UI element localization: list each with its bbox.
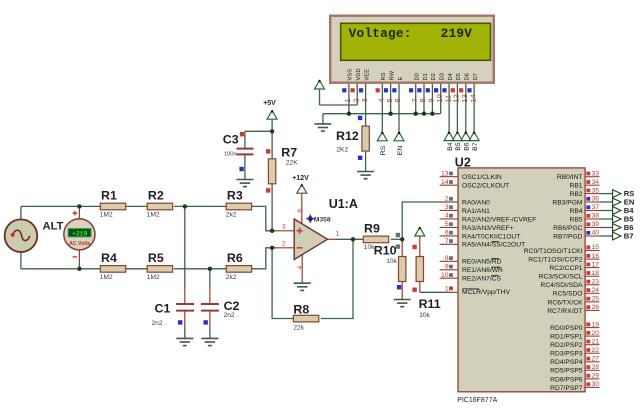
svg-text:D4: D4	[448, 72, 454, 80]
U2 pin 40 RB7/PGD	[553, 230, 599, 241]
U2 pin 17 RC2/CCP1	[549, 261, 599, 272]
resistor R7	[268, 146, 298, 184]
wire +5V to C3 and R7	[245, 119, 272, 158]
wire R3 to op-amp pin 3	[252, 206, 295, 230]
svg-text:RB5: RB5	[569, 216, 582, 223]
svg-text:RC0/T1OSO/T1CKI: RC0/T1OSO/T1CKI	[524, 248, 583, 255]
wire R2-R3 with node	[174, 205, 226, 207]
svg-text:RA3/AN3/VREF+: RA3/AN3/VREF+	[462, 225, 514, 232]
svg-text:RE2/AN7/CS: RE2/AN7/CS	[462, 276, 502, 283]
svg-text:C3: C3	[223, 133, 239, 147]
terminal RS below LCD	[377, 132, 387, 155]
svg-text:B6: B6	[464, 142, 471, 151]
input terminal at R11	[415, 227, 425, 236]
wire C2 branch from R5-R6 node	[209, 269, 211, 339]
svg-text:3: 3	[360, 98, 369, 102]
resistor R9	[363, 222, 388, 251]
svg-text:R3: R3	[227, 189, 243, 203]
svg-text:RB6/PGC: RB6/PGC	[553, 225, 583, 232]
svg-text:D0: D0	[415, 73, 421, 80]
svg-text:RE1/AN6/WR: RE1/AN6/WR	[462, 267, 503, 274]
ground at C1	[176, 338, 193, 345]
terminal B6 at U2 pin 39	[600, 223, 634, 232]
node op-amp output / feedback	[351, 237, 355, 241]
U2 pin 33 RB0/INT	[557, 170, 600, 181]
node top rail / voltmeter	[77, 204, 81, 208]
svg-text:OSC2/CLKOUT: OSC2/CLKOUT	[462, 183, 509, 190]
svg-text:R7: R7	[281, 146, 297, 160]
svg-text:RB1: RB1	[569, 183, 582, 190]
svg-text:28: 28	[592, 364, 600, 371]
U2 pin 35 RB2	[569, 187, 599, 198]
svg-text:RD3/PSP3: RD3/PSP3	[550, 351, 583, 358]
node op-amp pin 2 / R8	[270, 246, 274, 250]
node ground bus / LCD pin 5	[388, 112, 392, 116]
wire bottom rail from source to R4	[21, 251, 100, 269]
resistor R1	[100, 189, 126, 219]
wire LCD pin 7 D0	[415, 83, 417, 114]
svg-text:D2: D2	[431, 73, 437, 80]
U2 pin 30 RD7/PSP7	[550, 381, 599, 392]
svg-text:RC7/RX/DT: RC7/RX/DT	[547, 308, 582, 315]
wire LCD pin 11 D4 to terminal	[448, 83, 450, 132]
U2 pin 18 RC3/SCK/SCL	[539, 270, 600, 281]
microcontroller U2 PIC16F877A body	[455, 155, 585, 403]
svg-text:2k2: 2k2	[226, 274, 237, 281]
resistor R2	[147, 189, 173, 219]
wire LCD pin 13 D6 to terminal	[465, 83, 467, 132]
op-amp U1:A part number LM358	[306, 215, 331, 224]
U2 pin 6 RA4/T0CKI/C1OUT	[440, 230, 521, 241]
svg-text:10: 10	[441, 272, 449, 279]
svg-text:36: 36	[592, 196, 600, 203]
resistor R5	[147, 251, 173, 281]
wire R9 to R10 node and PIC RA0	[391, 202, 458, 239]
svg-text:ALT: ALT	[43, 221, 64, 233]
svg-text:Voltage:: Voltage:	[349, 26, 412, 41]
node +5V / C3 / R7	[270, 129, 274, 133]
wire R4-R5	[126, 268, 148, 270]
wire LCD pin 8 D1	[423, 83, 425, 114]
svg-text:RD7/PSP7: RD7/PSP7	[550, 385, 583, 392]
terminal RS at U2 pin 35	[600, 189, 635, 198]
U2 pin 8 RE0/AN5/RD	[440, 255, 502, 266]
U2 pin 3 RA1/AN1	[440, 204, 491, 215]
resistor R3	[226, 189, 252, 219]
svg-text:2n2: 2n2	[152, 320, 163, 327]
svg-text:8: 8	[445, 255, 449, 262]
svg-text:RA5/AN4/SS/C2OUT: RA5/AN4/SS/C2OUT	[462, 242, 525, 249]
U2 pin 34 RB1	[569, 179, 599, 190]
LCD module LM016L body	[330, 16, 494, 83]
svg-text:24: 24	[592, 287, 600, 294]
svg-text:RC3/SCK/SCL: RC3/SCK/SCL	[539, 274, 583, 281]
svg-text:M358: M358	[314, 217, 331, 224]
capacitor C2	[201, 299, 240, 319]
svg-text:14: 14	[468, 94, 477, 102]
svg-text:EN: EN	[397, 146, 404, 156]
capacitor C1	[152, 302, 195, 327]
svg-text:1M2: 1M2	[100, 212, 113, 219]
U2 pin 16 RC1/T1OSI/CCP2	[528, 253, 599, 264]
svg-text:14: 14	[441, 179, 449, 186]
svg-text:26: 26	[592, 304, 600, 311]
wire R1-R2	[126, 205, 148, 207]
wire terminal to R11	[419, 236, 421, 257]
svg-text:RA2/AN2/VREF-/CVREF: RA2/AN2/VREF-/CVREF	[462, 216, 536, 223]
svg-text:B5: B5	[455, 142, 462, 151]
op-amp pin numbers	[282, 209, 340, 270]
svg-text:4: 4	[445, 213, 449, 220]
node ground bus / LCD pin 8	[422, 112, 426, 116]
svg-text:R10: R10	[374, 243, 397, 257]
svg-text:R8: R8	[293, 303, 309, 317]
U2 pin 21 RD2/PSP2	[550, 338, 599, 349]
power +12V terminal at op-amp	[292, 175, 309, 193]
U2 pin 20 RD1/PSP1	[550, 330, 599, 341]
svg-text:17: 17	[592, 261, 600, 268]
U2 pin 7 RA5/AN4/SS/C2OUT	[440, 238, 526, 249]
ground at C2	[201, 338, 218, 345]
U2 pin 25 RC6/TX/CK	[548, 296, 600, 307]
svg-text:RS: RS	[381, 72, 387, 80]
svg-text:RA4/T0CKI/C1OUT: RA4/T0CKI/C1OUT	[462, 233, 520, 240]
wire node to R10	[401, 239, 403, 256]
svg-text:33: 33	[592, 170, 600, 177]
wire LCD +5V feed to VDD	[320, 89, 358, 105]
state squares at C1 C2 C3 R7 R12	[178, 116, 362, 325]
svg-text:15: 15	[592, 244, 600, 251]
wire LCD pin 14 D7 to terminal	[473, 83, 475, 132]
ground at R12	[357, 172, 374, 179]
label ALT	[43, 221, 64, 233]
svg-text:D5: D5	[456, 73, 462, 80]
svg-text:RD5/PSP5: RD5/PSP5	[550, 368, 583, 375]
LCD pin name labels	[348, 68, 479, 80]
resistor R12	[336, 126, 369, 154]
U2 pin 38 RB5	[569, 213, 599, 224]
svg-text:D7: D7	[473, 73, 479, 80]
svg-text:23: 23	[592, 279, 600, 286]
wire R6 to op-amp pin 2	[252, 248, 295, 269]
U2 pin 23 RC4/SDI/SDA	[541, 279, 600, 290]
resistor R10	[374, 243, 406, 281]
svg-text:R9: R9	[364, 222, 380, 236]
svg-text:16: 16	[592, 253, 600, 260]
svg-text:38: 38	[592, 213, 600, 220]
svg-text:2: 2	[445, 196, 449, 203]
U2 pin 14 OSC2/CLKOUT	[440, 179, 510, 190]
svg-text:40: 40	[592, 230, 600, 237]
wire LCD pin 9 D2	[431, 83, 433, 114]
LCD text Voltage: 219V	[349, 26, 473, 41]
U2 pin 5 RA3/AN3/VREF+	[440, 221, 514, 232]
node R5-R6 / C2	[208, 267, 212, 271]
svg-text:19: 19	[592, 321, 600, 328]
U2 pin 15 RC0/T1OSO/T1CKI	[524, 244, 600, 255]
svg-text:R11: R11	[419, 297, 441, 311]
wire R12 to ground	[365, 152, 367, 172]
U2 pin 19 RD0/PSP0	[550, 321, 599, 332]
overline marks on active-low pin names	[462, 242, 500, 289]
ground at C3	[236, 180, 253, 187]
svg-text:29: 29	[592, 373, 600, 380]
svg-text:219V: 219V	[441, 26, 473, 41]
svg-text:13: 13	[441, 170, 449, 177]
node ground bus / LCD pin 9	[430, 112, 434, 116]
svg-text:VSS: VSS	[348, 69, 354, 81]
svg-text:34: 34	[592, 179, 600, 186]
terminal B7 below LCD	[469, 132, 479, 151]
svg-text:RS: RS	[380, 145, 387, 155]
U2 pin 29 RD6/PSP6	[550, 373, 599, 384]
svg-text:18: 18	[592, 270, 600, 277]
U2 pin 10 RE2/AN7/CS	[440, 272, 502, 283]
resistor R8	[293, 303, 318, 332]
svg-text:27: 27	[592, 356, 600, 363]
svg-text:PIC16F877A: PIC16F877A	[457, 397, 497, 404]
svg-text:AC Volts: AC Volts	[69, 241, 90, 247]
resistor R6	[226, 251, 252, 281]
svg-text:21: 21	[592, 338, 600, 345]
svg-text:8: 8	[297, 209, 304, 213]
terminal B4 at U2 pin 37	[600, 206, 635, 215]
svg-text:B7: B7	[624, 232, 634, 241]
terminal B7 at U2 pin 40	[600, 232, 634, 241]
U2 pin 36 RB3/PGM	[552, 196, 599, 207]
svg-text:RA0/AN0: RA0/AN0	[462, 199, 490, 206]
svg-text:+12V: +12V	[292, 175, 309, 182]
svg-text:MCLR/Vpp/THV: MCLR/Vpp/THV	[462, 289, 510, 296]
svg-text:R6: R6	[227, 251, 243, 265]
svg-text:100n: 100n	[224, 151, 237, 157]
wire C3 to ground	[244, 155, 246, 180]
wire voltmeter taps	[78, 206, 80, 268]
terminal B6 below LCD	[461, 132, 471, 151]
svg-text:RD6/PSP6: RD6/PSP6	[550, 376, 583, 383]
svg-text:R2: R2	[148, 189, 164, 203]
U2 pin 27 RD4/PSP4	[550, 356, 599, 367]
svg-text:RC2/CCP1: RC2/CCP1	[549, 265, 582, 272]
svg-text:39: 39	[592, 221, 600, 228]
wire op-amp V- pin 4 to ground	[301, 255, 303, 283]
wire R7 to op-amp node	[271, 184, 273, 231]
U2 pin 1 MCLR/Vpp/THV	[445, 285, 511, 296]
wire LCD pin 2 VDD	[356, 83, 358, 105]
node bottom rail / voltmeter	[77, 267, 81, 271]
terminal EN at U2 pin 36	[600, 198, 635, 207]
svg-text:VEE: VEE	[364, 69, 370, 81]
svg-text:25: 25	[592, 296, 600, 303]
wire LCD pin 5 RW	[390, 83, 392, 114]
svg-text:D6: D6	[465, 73, 471, 80]
svg-text:+5V: +5V	[263, 100, 276, 107]
svg-text:10k: 10k	[386, 258, 397, 265]
svg-text:D3: D3	[440, 73, 446, 80]
wire top rail from source to R1	[21, 206, 100, 219]
svg-text:22: 22	[592, 347, 600, 354]
svg-text:3: 3	[282, 224, 286, 231]
U2 pin 26 RC7/RX/DT	[547, 304, 599, 315]
svg-text:1M2: 1M2	[147, 274, 160, 281]
svg-text:RC4/SDI/SDA: RC4/SDI/SDA	[541, 282, 584, 289]
svg-text:35: 35	[592, 187, 600, 194]
svg-text:2: 2	[282, 241, 286, 248]
svg-text:U2: U2	[455, 155, 471, 169]
wire LCD pin 12 D5 to terminal	[456, 83, 458, 132]
svg-text:30: 30	[592, 381, 600, 388]
terminal B5 below LCD	[452, 132, 462, 151]
svg-text:C1: C1	[155, 302, 171, 316]
svg-text:RB7/PGD: RB7/PGD	[553, 233, 583, 240]
U2 pin 24 RC5/SDO	[553, 287, 600, 298]
svg-text:1M2: 1M2	[147, 212, 160, 219]
svg-text:RD1/PSP1: RD1/PSP1	[550, 334, 583, 341]
wire LCD pin 3 VEE to R12	[365, 83, 367, 126]
svg-text:3: 3	[445, 204, 449, 211]
svg-text:1M2: 1M2	[100, 274, 113, 281]
svg-text:20: 20	[592, 330, 600, 337]
svg-text:RW: RW	[389, 70, 395, 80]
voltmeter AC Volts	[64, 211, 95, 257]
svg-text:D1: D1	[423, 73, 429, 80]
U2 pin 22 RD3/PSP3	[550, 347, 599, 358]
svg-text:RD4/PSP4: RD4/PSP4	[550, 359, 583, 366]
terminal B5 at U2 pin 38	[600, 215, 635, 224]
svg-text:RB4: RB4	[569, 208, 582, 215]
svg-text:RD2/PSP2: RD2/PSP2	[550, 342, 583, 349]
svg-text:RC1/T1OSI/CCP2: RC1/T1OSI/CCP2	[528, 257, 583, 264]
svg-text:2n2: 2n2	[224, 312, 235, 319]
svg-text:4: 4	[297, 265, 304, 269]
U2 pin 28 RD5/PSP5	[550, 364, 599, 375]
wire R11 to PIC MCLR	[420, 282, 458, 293]
U2 pin 37 RB4	[569, 204, 599, 215]
svg-text:RC5/SDO: RC5/SDO	[553, 291, 583, 298]
svg-text:9: 9	[445, 264, 449, 271]
svg-text:U1:A: U1:A	[329, 197, 358, 211]
svg-text:R12: R12	[336, 129, 359, 143]
terminal B4 below LCD	[444, 132, 454, 151]
wire R5-R6 with node	[174, 268, 226, 270]
svg-text:RA1/AN1: RA1/AN1	[462, 208, 490, 215]
node op-amp pin 3 / R7	[270, 229, 274, 233]
wire R10 to ground	[401, 282, 403, 300]
U2 pin 4 RA2/AN2/VREF-/CVREF	[440, 213, 537, 224]
svg-text:7: 7	[445, 238, 449, 245]
resistor R11	[416, 257, 441, 319]
U2 pin 9 RE1/AN6/WR	[440, 264, 503, 275]
svg-text:6: 6	[445, 230, 449, 237]
svg-text:RD0/PSP0: RD0/PSP0	[550, 325, 583, 332]
svg-text:+219: +219	[72, 231, 88, 238]
svg-text:22K: 22K	[286, 160, 298, 167]
power +5V terminal at R7	[263, 100, 277, 119]
wire LCD pin 6 E to terminal	[398, 83, 400, 132]
svg-text:6: 6	[393, 98, 402, 102]
svg-text:VDD: VDD	[356, 68, 362, 80]
svg-text:37: 37	[592, 204, 600, 211]
LCD pin numbers and state squares	[342, 88, 477, 102]
ground at LCD bus	[314, 124, 331, 131]
U2 pin 13 OSC1/CLKIN	[440, 170, 502, 181]
AC source ALT	[5, 219, 38, 252]
wire op-amp V+ pin 8	[301, 193, 303, 223]
node ground bus / LCD pin 1	[347, 112, 351, 116]
wire LCD ground bus	[323, 114, 441, 124]
svg-text:R1: R1	[101, 189, 117, 203]
wire LCD pin 10 D3	[440, 83, 442, 114]
capacitor C3	[223, 133, 254, 158]
svg-text:2K2: 2K2	[336, 147, 348, 154]
wire LCD pin 4 RS to terminal	[381, 83, 383, 132]
node ground bus / LCD pin 7	[414, 112, 418, 116]
power +5V terminal at LCD	[315, 80, 325, 89]
wire op-amp output to R9	[327, 238, 363, 240]
wire LCD pin 1 VSS	[348, 83, 350, 114]
node R9 / R10 / RA0	[400, 237, 404, 241]
svg-text:RC6/TX/CK: RC6/TX/CK	[548, 299, 583, 306]
U2 pin 2 RA0/AN0	[445, 196, 490, 207]
svg-text:B7: B7	[472, 142, 479, 151]
wire op-amp feedback loop through R8	[272, 239, 353, 318]
op-amp U1:A	[294, 197, 358, 260]
svg-text:5: 5	[445, 221, 449, 228]
svg-text:R4: R4	[101, 251, 117, 265]
state squares at R9 R10 R11 node	[396, 233, 417, 292]
svg-text:B4: B4	[447, 142, 454, 151]
svg-text:OSC1/CLKIN: OSC1/CLKIN	[462, 174, 502, 181]
wire C1 branch from R2-R3 node	[184, 206, 186, 338]
svg-text:R5: R5	[148, 251, 164, 265]
ground at op-amp pin 4	[294, 283, 311, 290]
ground at R10	[394, 300, 411, 307]
svg-text:RB0/INT: RB0/INT	[557, 174, 583, 181]
U2 pin 39 RB6/PGC	[553, 221, 599, 232]
svg-text:RB3/PGM: RB3/PGM	[552, 199, 583, 206]
svg-text:E: E	[398, 77, 404, 81]
svg-text:22k: 22k	[293, 325, 304, 332]
svg-text:2k2: 2k2	[226, 212, 237, 219]
svg-text:1: 1	[336, 230, 340, 237]
node R2-R3 / C1	[183, 204, 187, 208]
terminal EN below LCD	[394, 132, 404, 155]
svg-text:10k: 10k	[419, 312, 430, 319]
svg-text:RB2: RB2	[569, 191, 582, 198]
resistor R4	[100, 251, 126, 281]
svg-text:RE0/AN5/RD: RE0/AN5/RD	[462, 259, 502, 266]
svg-text:1: 1	[445, 285, 449, 292]
